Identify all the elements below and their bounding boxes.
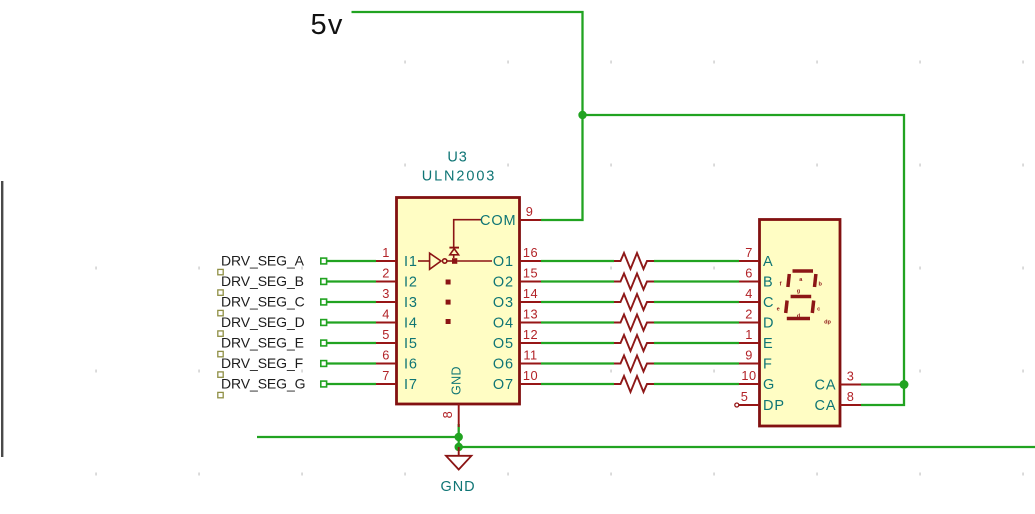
svg-text:DRV_SEG_C: DRV_SEG_C — [221, 294, 305, 310]
svg-text:COM: COM — [480, 213, 517, 229]
svg-text:G: G — [763, 377, 775, 393]
svg-text:16: 16 — [523, 245, 538, 260]
svg-text:ULN2003: ULN2003 — [422, 169, 497, 185]
svg-text:I2: I2 — [404, 275, 418, 291]
svg-text:DRV_SEG_B: DRV_SEG_B — [221, 273, 304, 289]
svg-text:5v: 5v — [311, 9, 344, 41]
svg-text:5: 5 — [741, 389, 749, 404]
svg-text:I6: I6 — [404, 357, 418, 373]
svg-text:g: g — [797, 289, 801, 295]
svg-text:f: f — [780, 282, 782, 288]
svg-text:14: 14 — [523, 286, 538, 301]
svg-text:DRV_SEG_D: DRV_SEG_D — [221, 314, 305, 330]
svg-text:O4: O4 — [493, 316, 514, 332]
svg-text:1: 1 — [745, 327, 753, 342]
svg-text:C: C — [763, 295, 774, 311]
svg-text:10: 10 — [523, 368, 538, 383]
svg-text:I7: I7 — [404, 377, 418, 393]
svg-text:F: F — [763, 357, 773, 373]
svg-text:1: 1 — [382, 245, 390, 260]
svg-text:E: E — [763, 336, 774, 352]
svg-text:I3: I3 — [404, 295, 418, 311]
svg-text:7: 7 — [382, 368, 390, 383]
svg-text:CA: CA — [815, 378, 837, 394]
svg-text:3: 3 — [847, 369, 855, 384]
svg-text:DRV_SEG_F: DRV_SEG_F — [221, 355, 303, 371]
svg-text:9: 9 — [745, 348, 753, 363]
svg-text:c: c — [817, 307, 820, 313]
svg-text:10: 10 — [741, 368, 756, 383]
svg-text:I1: I1 — [404, 254, 418, 270]
svg-text:7: 7 — [745, 245, 753, 260]
svg-text:I4: I4 — [404, 316, 418, 332]
svg-text:e: e — [777, 307, 780, 313]
svg-text:4: 4 — [745, 286, 753, 301]
svg-text:8: 8 — [847, 389, 855, 404]
svg-text:O7: O7 — [493, 377, 514, 393]
svg-text:d: d — [797, 314, 801, 320]
svg-text:O5: O5 — [493, 336, 514, 352]
svg-text:2: 2 — [382, 266, 390, 281]
svg-text:GND: GND — [450, 366, 464, 395]
svg-text:CA: CA — [815, 398, 837, 414]
svg-text:I5: I5 — [404, 336, 418, 352]
svg-text:DRV_SEG_G: DRV_SEG_G — [221, 376, 305, 392]
svg-text:11: 11 — [523, 348, 537, 363]
svg-text:13: 13 — [523, 307, 538, 322]
svg-text:O2: O2 — [493, 275, 514, 291]
svg-text:DRV_SEG_E: DRV_SEG_E — [221, 335, 304, 351]
svg-text:DRV_SEG_A: DRV_SEG_A — [221, 253, 305, 269]
svg-text:D: D — [763, 316, 774, 332]
svg-text:B: B — [763, 275, 774, 291]
svg-text:O6: O6 — [493, 357, 514, 373]
svg-text:O1: O1 — [493, 254, 514, 270]
svg-text:2: 2 — [745, 307, 753, 322]
svg-text:12: 12 — [523, 327, 538, 342]
svg-text:dp: dp — [824, 320, 831, 326]
svg-text:GND: GND — [441, 479, 476, 495]
svg-text:b: b — [818, 282, 822, 288]
svg-text:6: 6 — [382, 348, 390, 363]
svg-text:3: 3 — [382, 286, 390, 301]
svg-text:6: 6 — [745, 266, 753, 281]
svg-text:15: 15 — [523, 266, 538, 281]
svg-text:9: 9 — [526, 204, 534, 219]
svg-text:4: 4 — [382, 307, 390, 322]
svg-text:U3: U3 — [447, 150, 467, 166]
svg-text:8: 8 — [440, 411, 455, 419]
svg-text:O3: O3 — [493, 295, 514, 311]
svg-text:5: 5 — [382, 327, 390, 342]
svg-text:A: A — [763, 254, 774, 270]
svg-text:DP: DP — [763, 398, 785, 414]
